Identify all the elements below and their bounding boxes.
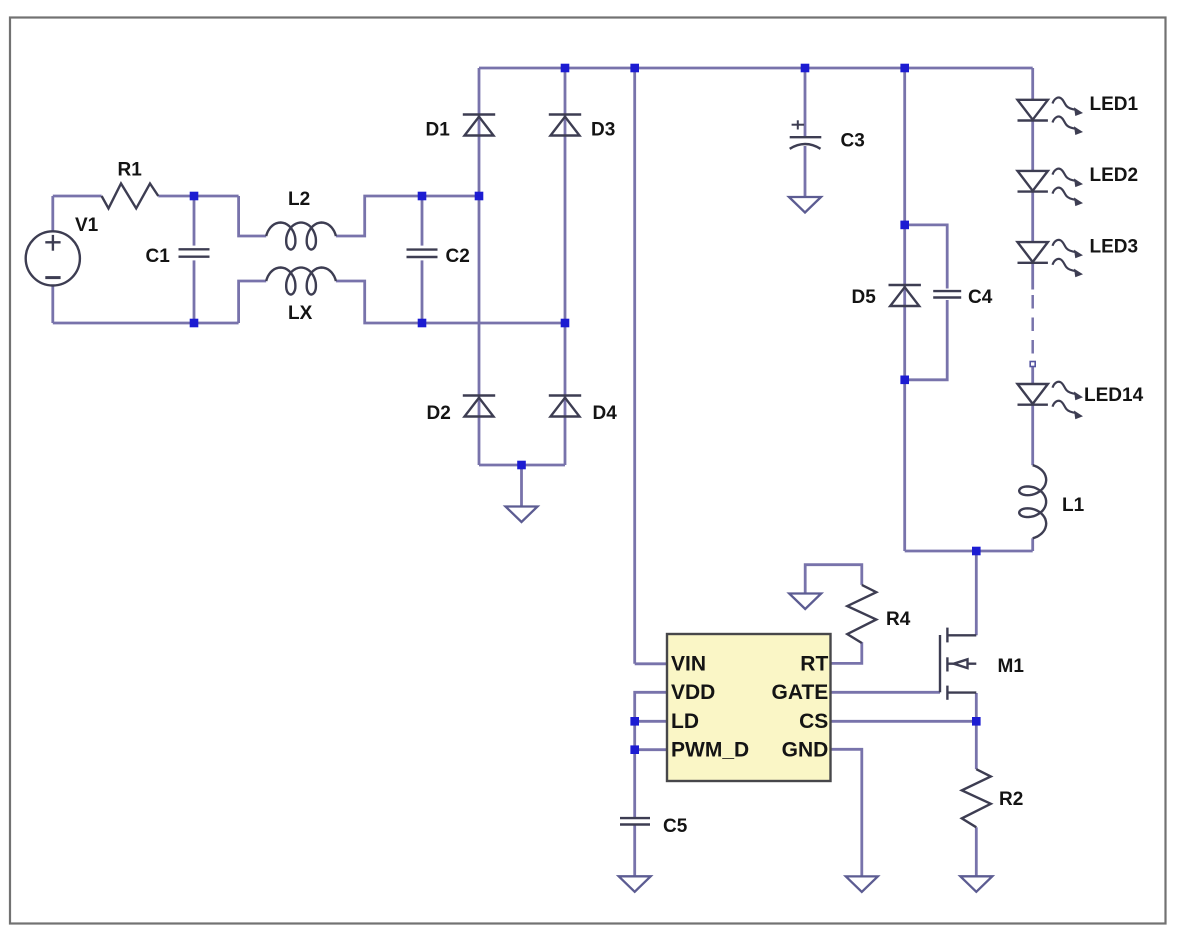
inductor L1 [1019, 465, 1046, 538]
wire D5 bottom lead [903, 285, 906, 380]
wire bottom of LED loop [905, 550, 1033, 553]
svg-text:VIN: VIN [671, 653, 706, 676]
wire LX right to C2 bottom node [336, 281, 422, 323]
diode D2 [463, 396, 495, 417]
LED LED1 diode [1018, 100, 1048, 121]
svg-text:LED1: LED1 [1090, 94, 1139, 115]
diode D3 [549, 115, 581, 136]
transistor M1 NMOS [940, 628, 976, 700]
node C1 top [190, 192, 199, 201]
wire LED14 to L1 [1031, 405, 1034, 466]
op-amp controller IC U1 box [667, 634, 831, 781]
diode D5 [889, 285, 921, 306]
LED14 emission arrow 1 [1053, 382, 1084, 400]
wire LED1 to LED2 [1031, 121, 1034, 171]
ground GND pin [846, 876, 878, 892]
wire node to LX step [194, 322, 239, 325]
node LD [630, 717, 639, 726]
svg-text:CS: CS [799, 710, 828, 733]
svg-text:LED2: LED2 [1090, 165, 1139, 186]
wire D4 anode lead [564, 396, 567, 466]
LED1 emission arrow 1 [1053, 98, 1084, 116]
wire D2 anode lead [478, 396, 481, 466]
capacitor C2 [407, 250, 438, 257]
svg-text:L2: L2 [288, 189, 310, 210]
wire C2 bottom lead [421, 260, 424, 323]
resistor R1 [102, 184, 159, 209]
node rail C3 [801, 64, 810, 73]
LED1 emission arrow 2 [1053, 117, 1084, 135]
ground R4 [789, 594, 821, 610]
node bridge AC2 [561, 319, 570, 328]
wire D1 cathode lead [478, 68, 481, 115]
wire C3 ground stub [804, 146, 807, 197]
wire step down to L2 left [239, 196, 267, 236]
wire VIN vertical [633, 68, 636, 664]
svg-text:LED14: LED14 [1084, 385, 1144, 406]
LED LED3 diode [1018, 242, 1048, 263]
LED3 emission arrow 1 [1053, 240, 1084, 258]
wire bridge bottom [479, 464, 565, 467]
wire C2 top lead [421, 196, 424, 246]
voltage source V1 [26, 231, 80, 285]
capacitor C4 [933, 291, 961, 297]
wire top positive rail [479, 67, 1033, 70]
svg-text:C2: C2 [446, 246, 470, 267]
svg-text:D2: D2 [427, 403, 451, 424]
resistor R2 [962, 769, 991, 827]
wire CS pin to node [831, 720, 977, 723]
wire D5 node to C4 top [905, 225, 948, 289]
svg-text:LED3: LED3 [1090, 236, 1139, 257]
svg-text:C3: C3 [841, 131, 865, 152]
wire RT pin to R4 bottom [831, 642, 862, 663]
svg-text:D1: D1 [426, 119, 451, 140]
LED LED14 diode [1018, 384, 1048, 405]
wire square to LED14 [1031, 367, 1034, 384]
node bridge ground [517, 461, 526, 470]
node D5 top [900, 221, 909, 230]
wire L1 bottom lead [1031, 538, 1034, 551]
LED14 emission arrow 2 [1053, 401, 1084, 419]
wire M1 source to CS node [975, 693, 978, 721]
wire node to D4 cathode [564, 323, 567, 396]
wire R2 bottom to ground [975, 827, 978, 876]
node C1 bottom [190, 319, 199, 328]
wire GATE pin to M1 gate [831, 691, 941, 694]
node CS [972, 717, 981, 726]
diode D1 [463, 115, 495, 136]
capacitor C1 [179, 249, 210, 256]
node PWM_D [630, 745, 639, 754]
capacitor C3 polarized [790, 137, 822, 149]
node D5 bottom [900, 376, 909, 385]
LED2 emission arrow 1 [1053, 169, 1084, 187]
LED14 anode tap square [1030, 362, 1035, 367]
wire C2 bottom to D3-D4 node [422, 322, 565, 325]
wire V1 bottom lead [51, 286, 54, 324]
wire PWM_D pin stub [635, 748, 667, 751]
svg-text:D5: D5 [852, 287, 877, 308]
node rail D3 [561, 64, 570, 73]
svg-text:RT: RT [800, 653, 828, 676]
svg-text:PWM_D: PWM_D [671, 739, 749, 762]
node rail D5 [900, 64, 909, 73]
svg-text:R2: R2 [999, 789, 1023, 810]
svg-text:LX: LX [288, 303, 313, 324]
node C2 bottom [418, 319, 427, 328]
svg-text:C1: C1 [146, 246, 171, 267]
svg-text:R4: R4 [886, 609, 911, 630]
wire R1 to node C1 top [158, 195, 194, 198]
ground C5 [619, 876, 651, 892]
wire R4 top bracket to ground [805, 565, 862, 594]
wire LED3 down solid [1031, 263, 1034, 290]
wire C3 top lead [804, 68, 807, 136]
wire GND pin to ground [831, 749, 862, 876]
LED3 emission arrow 2 [1053, 259, 1084, 277]
svg-text:LD: LD [671, 710, 699, 733]
wire node to D2 cathode [478, 196, 481, 396]
LED LED2 diode [1018, 171, 1048, 192]
ground R2 [960, 876, 992, 892]
wire D3 anode to node [564, 115, 567, 324]
wire D3 cathode lead [564, 68, 567, 115]
svg-text:C5: C5 [663, 816, 688, 837]
svg-text:R1: R1 [118, 160, 143, 181]
wire bottom V1 to C1 [53, 322, 194, 325]
svg-text:M1: M1 [998, 656, 1025, 677]
svg-text:V1: V1 [75, 215, 99, 236]
wire node to M1 drain [975, 551, 978, 635]
wire VDD down to C5 [635, 692, 667, 817]
LED2 emission arrow 2 [1053, 188, 1084, 206]
svg-text:GND: GND [782, 739, 829, 762]
wire D5 column down [903, 380, 906, 551]
node M1 drain [972, 547, 981, 556]
wire C1 bottom lead [193, 260, 196, 323]
wire C5 to ground [633, 825, 636, 877]
svg-text:GATE: GATE [772, 681, 829, 704]
node rail VIN [630, 64, 639, 73]
C3 plus sign [792, 120, 805, 129]
wire node to R2 top [975, 721, 978, 769]
wire bridge ground stub [520, 465, 523, 507]
wire node to L2 step [194, 195, 239, 198]
wire C4 bottom to node [905, 300, 948, 380]
diode D4 [549, 396, 581, 417]
svg-text:C4: C4 [968, 287, 993, 308]
node C2 top [418, 192, 427, 201]
inductor LX [266, 268, 336, 295]
ground bridge [506, 507, 538, 523]
wire dashed LED chain continuation [1031, 295, 1034, 358]
ground C3 [789, 197, 821, 213]
resistor R4 [847, 585, 876, 643]
inductor L2 [266, 223, 336, 250]
wire LD pin stub [635, 720, 667, 723]
wire C1 top lead [193, 196, 196, 246]
wire VIN pin stub [635, 662, 667, 665]
wire step up to LX left [239, 281, 267, 323]
svg-text:D3: D3 [591, 119, 615, 140]
capacitor C5 [620, 818, 650, 824]
wire D5 top lead [903, 68, 906, 285]
wire LED2 to LED3 [1031, 192, 1034, 243]
wire V1 top lead [51, 196, 54, 231]
wire L2 right to D1 node [336, 196, 479, 236]
svg-text:D4: D4 [593, 403, 618, 424]
svg-text:VDD: VDD [671, 681, 715, 704]
wire rail to LED1 [1031, 68, 1034, 100]
svg-text:L1: L1 [1062, 495, 1085, 516]
wire V1 top to R1 [53, 195, 102, 198]
wire D1 anode through symbol [478, 115, 481, 197]
node bridge AC1 [475, 192, 484, 201]
